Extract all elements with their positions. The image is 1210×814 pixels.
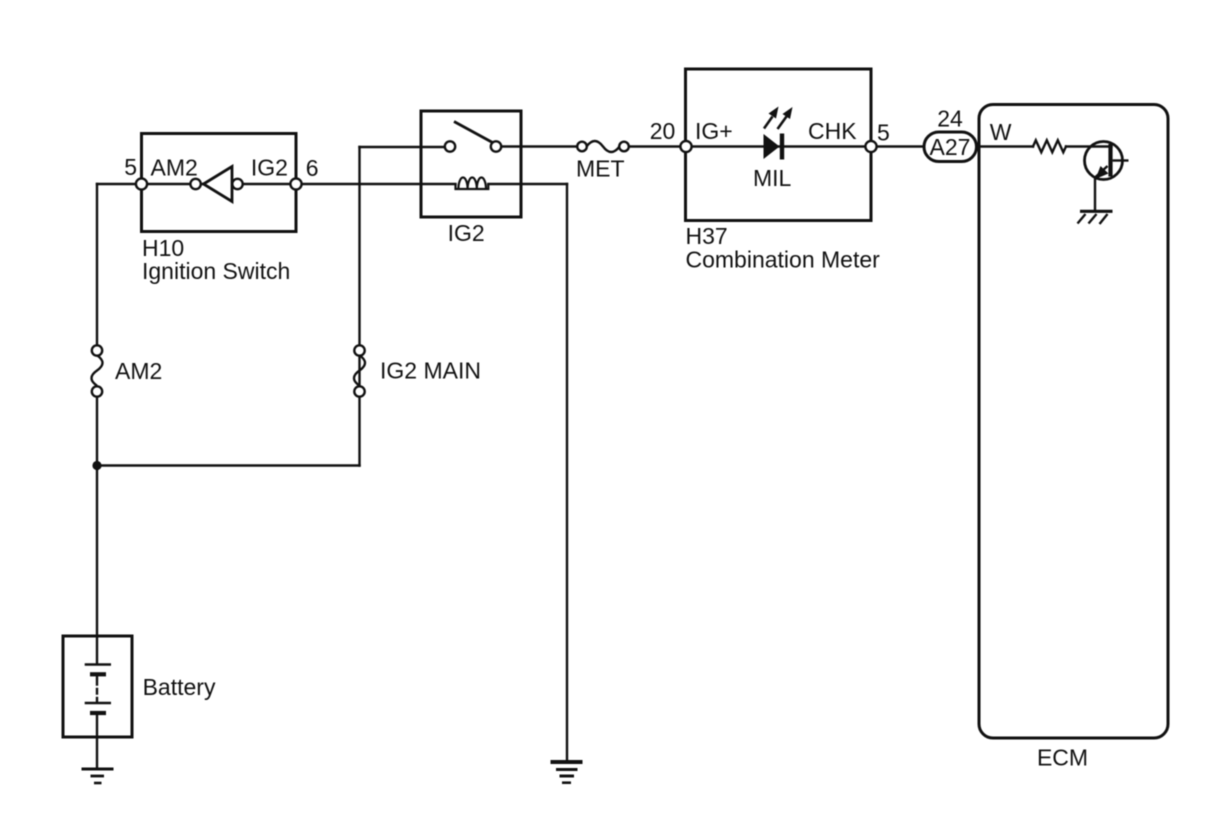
svg-text:W: W (990, 119, 1012, 145)
svg-text:IG2 MAIN: IG2 MAIN (380, 358, 481, 384)
svg-text:24: 24 (937, 106, 963, 132)
svg-text:Combination Meter: Combination Meter (686, 247, 881, 273)
svg-text:Battery: Battery (143, 674, 216, 700)
svg-text:5: 5 (124, 154, 137, 180)
svg-text:A27: A27 (930, 134, 971, 160)
svg-text:6: 6 (306, 155, 319, 181)
svg-text:IG2: IG2 (448, 220, 485, 246)
svg-text:MET: MET (576, 156, 625, 182)
svg-text:IG+: IG+ (695, 118, 733, 144)
svg-text:Ignition Switch: Ignition Switch (142, 258, 290, 284)
svg-text:AM2: AM2 (151, 155, 198, 181)
svg-text:H37: H37 (686, 223, 728, 249)
svg-text:CHK: CHK (808, 118, 857, 144)
svg-text:MIL: MIL (753, 165, 792, 191)
svg-text:ECM: ECM (1037, 745, 1088, 771)
svg-text:IG2: IG2 (251, 155, 288, 181)
svg-text:AM2: AM2 (115, 358, 162, 384)
svg-text:5: 5 (877, 120, 890, 146)
svg-text:20: 20 (650, 118, 676, 144)
